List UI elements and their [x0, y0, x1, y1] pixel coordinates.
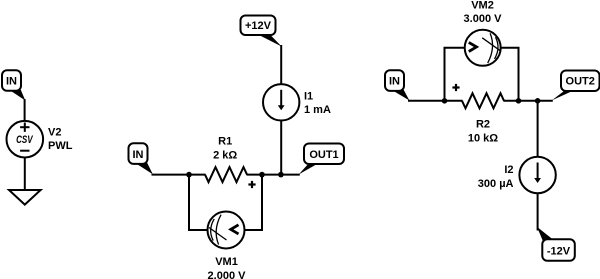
- svg-text:V2PWL: V2PWL: [48, 127, 73, 153]
- node IN flag (middle): [129, 143, 153, 174]
- resistor R1: [205, 167, 247, 182]
- current source I2: [519, 157, 555, 193]
- svg-text:I2300 µA: I2300 µA: [478, 164, 514, 190]
- junction dot: [259, 172, 265, 178]
- junction dot: [535, 98, 541, 104]
- wire VM1 right: [245, 175, 263, 230]
- svg-text:R12 kΩ: R12 kΩ: [213, 136, 237, 162]
- node -12V flag: [537, 227, 575, 261]
- svg-text:-12V: -12V: [547, 245, 571, 257]
- svg-text:IN: IN: [133, 149, 144, 161]
- junction dot: [516, 98, 522, 104]
- svg-text:VM23.000 V: VM23.000 V: [464, 0, 503, 25]
- wire: [280, 45, 282, 84]
- wire: [504, 100, 553, 102]
- wire: [247, 174, 300, 176]
- wire: [24, 99, 26, 122]
- wire IN to OUT2: [408, 100, 463, 102]
- voltage source V2: [7, 121, 44, 158]
- polarity plus R1: [248, 181, 255, 188]
- junction dot: [186, 172, 192, 178]
- ground: [9, 190, 41, 205]
- wire: [280, 121, 282, 175]
- svg-text:I11 mA: I11 mA: [304, 90, 331, 116]
- wire: [537, 193, 539, 230]
- polarity plus R2: [452, 84, 459, 91]
- voltmeter VM2: [465, 30, 501, 66]
- wire: [24, 158, 26, 191]
- node IN flag (right): [385, 70, 409, 100]
- svg-text:IN: IN: [389, 76, 400, 88]
- wire: [537, 101, 539, 157]
- wire IN to OUT1: [152, 174, 206, 176]
- svg-text:CSV: CSV: [16, 134, 34, 146]
- node IN flag (left): [2, 70, 25, 100]
- node OUT1 flag: [299, 144, 344, 175]
- node OUT2 flag: [552, 71, 600, 101]
- svg-text:OUT2: OUT2: [566, 76, 595, 88]
- svg-text:OUT1: OUT1: [309, 149, 338, 161]
- svg-text:R210 kΩ: R210 kΩ: [468, 118, 498, 144]
- current source I1: [263, 84, 299, 120]
- wire VM2 left: [445, 48, 465, 101]
- wire VM2 right: [501, 48, 519, 101]
- voltmeter VM1: [208, 212, 245, 249]
- node +12V flag: [241, 16, 282, 47]
- wire VM1 left: [189, 175, 208, 230]
- junction dot: [442, 98, 448, 104]
- junction dot: [278, 172, 284, 178]
- svg-text:IN: IN: [6, 76, 17, 88]
- svg-text:VM12.000 V: VM12.000 V: [208, 256, 247, 279]
- resistor R2: [462, 93, 504, 108]
- svg-text:+12V: +12V: [245, 20, 272, 32]
